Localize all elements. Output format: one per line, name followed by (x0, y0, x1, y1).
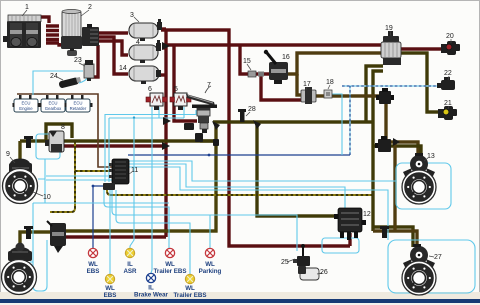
wire dashed olive: diagnostics to ECU (50, 141, 75, 212)
wire olive: long riser valve19 to rear park line (373, 71, 383, 231)
inline fitting 15 (248, 71, 256, 77)
wire tan: valve V down to chamber 13 (386, 104, 418, 157)
wire cyan: wheel sensor wires into ECU (46, 176, 112, 180)
svg-text:12: 12 (363, 211, 371, 218)
svg-text:13: 13 (427, 153, 435, 160)
wire red: tank14 out (158, 73, 166, 76)
svg-text:22: 22 (444, 70, 452, 77)
svg-text:19: 19 (385, 25, 393, 32)
svg-text:21: 21 (444, 100, 452, 107)
wire tan: valve16 branch down to valve17 (297, 74, 301, 95)
ECU Retarder box (65, 95, 93, 112)
rear left wheel chamber (8, 243, 32, 262)
svg-text:ECU: ECU (21, 101, 30, 106)
svg-text:11: 11 (131, 167, 138, 174)
svg-text:16: 16 (282, 54, 290, 61)
wire tan: rear park line to chamber 27 (373, 231, 417, 248)
warning lamp WL Parking red (205, 248, 214, 257)
pipe coil (46, 26, 62, 45)
node arrows on red main (162, 42, 170, 50)
wire tan: valve16 to valve19 (288, 53, 381, 74)
hand valve 16 (264, 50, 288, 84)
wire red: protection valve to tank 14 (97, 37, 128, 74)
svg-text:Gearbox: Gearbox (45, 106, 62, 111)
svg-text:18: 18 (326, 79, 334, 86)
svg-text:IL: IL (148, 285, 154, 292)
wire cyan: valve23 to ECU bus (33, 71, 83, 95)
front wheel chamber 9 (9, 159, 32, 175)
warning lamp WL Trailer EBS yellow (185, 274, 194, 283)
wire tan: valve17 to valve V (316, 94, 379, 97)
wire cyan: rear left wheel loop (30, 236, 47, 291)
svg-text:20: 20 (446, 33, 454, 40)
svg-text:WL: WL (205, 261, 215, 268)
wire dashed navy: trailer electric to coupling 22 (342, 85, 441, 87)
wire cyan: ECU right harness 2 (128, 164, 345, 208)
wire cyan: lamp feeds row2 (110, 190, 190, 275)
wire red: to rear left valve (64, 235, 166, 238)
svg-text:WL: WL (185, 285, 195, 292)
svg-text:Engine: Engine (19, 106, 33, 111)
node arrow pedal feed (163, 117, 171, 125)
wire red: main vertical (164, 29, 167, 237)
wire red: main supply bus (166, 43, 381, 46)
svg-text:10: 10 (43, 194, 51, 201)
trailer control valve 19 (381, 31, 401, 65)
wire tan: down to rear park line (393, 142, 396, 231)
wire cyan: ASR lamp long drop (130, 118, 134, 249)
wire red: protection valve to valve 23 (90, 45, 98, 77)
wire olive: branch to rear modulator (257, 122, 338, 216)
electric coupling 22 (437, 77, 455, 90)
wire cyan: brake wear lamp long drop (151, 107, 152, 273)
wheel 27 brake chamber (403, 244, 435, 273)
svg-text:25: 25 (281, 259, 289, 266)
four circuit protection valve (82, 24, 99, 46)
svg-text:1: 1 (25, 4, 29, 11)
wire CAN bus brown (17, 94, 112, 167)
wire cyan: ECU right harness 1 (128, 161, 396, 181)
ECU Gearbox box (40, 95, 67, 112)
svg-text:7: 7 (207, 82, 211, 89)
svg-text:8: 8 (61, 124, 65, 131)
wheel 13 (402, 170, 436, 204)
wire olive: riser to trailer valve 19 left (366, 66, 383, 122)
rear left wheel (2, 260, 37, 295)
wire olive: front axle delivery (20, 139, 216, 142)
wire red: protection valve to tank 3 (97, 31, 128, 34)
svg-text:5: 5 (174, 86, 178, 93)
wire cyan: lamp feeds row1 (104, 190, 297, 251)
svg-text:ECU: ECU (73, 101, 82, 106)
wire navy: ECU to lamp WL EBS (93, 186, 112, 249)
node at yellow/olive junction (213, 139, 219, 146)
svg-text:WL: WL (88, 261, 98, 268)
svg-text:IL: IL (127, 261, 133, 268)
rear axle modulator 12 (334, 208, 366, 240)
wire cyan: wheel 27 sensor box (388, 240, 475, 293)
svg-text:EBS: EBS (104, 292, 117, 299)
hand brake valve 25 (293, 244, 310, 266)
quick release valve rear upper (375, 136, 391, 152)
wire red: modulator supply riser (348, 233, 351, 246)
svg-text:WL: WL (165, 261, 175, 268)
pressure sensor 18 (324, 90, 332, 98)
wire navy: ECU to riser (128, 154, 350, 156)
valve 17 (301, 87, 316, 104)
svg-text:23: 23 (74, 57, 82, 64)
foot brake module 7 (184, 86, 217, 142)
wire red: bus down to rear modulator supply (161, 30, 350, 246)
T fitting rear park line (380, 226, 389, 229)
indicator lamp IL Brake Wear navy (146, 273, 155, 282)
svg-text:26: 26 (320, 269, 328, 276)
wire olive: foot brake delivery main (213, 120, 374, 123)
wire olive: service branch to chamber 27 (373, 227, 413, 247)
inline fitting on front delivery (24, 136, 33, 139)
svg-text:14: 14 (119, 65, 127, 72)
svg-text:17: 17 (303, 81, 311, 88)
wire red: valve 16 to valve 17 (261, 76, 301, 100)
wire cyan: switch 24 to valve 23 (79, 77, 88, 83)
wire cyan: front wheel loop (33, 159, 169, 236)
svg-text:EBS: EBS (87, 268, 100, 275)
inline fitting rear left (24, 226, 33, 229)
wire cyan: sensor 18 (332, 94, 342, 155)
svg-text:ASR: ASR (123, 268, 137, 275)
svg-text:9: 9 (6, 151, 10, 158)
svg-text:24: 24 (50, 73, 58, 80)
wire cyan: modulator connector box (322, 238, 359, 253)
solenoid valve 5 (170, 93, 191, 110)
EBS ECU 11 (103, 159, 129, 190)
wire red: to foot brake valve (174, 46, 197, 121)
svg-text:ECU: ECU (48, 101, 57, 106)
node arrow on olive line at yellow branch (212, 121, 220, 130)
wheel 13 brake chamber (403, 153, 435, 182)
wire red: tank4 out (162, 46, 166, 49)
wire cyan: ECU right harness 3 (128, 167, 388, 240)
svg-text:Trailer EBS: Trailer EBS (173, 292, 206, 299)
pressure switch 24 (58, 76, 81, 88)
svg-text:28: 28 (248, 106, 256, 113)
air tank 3 (129, 19, 162, 41)
coupling head 21 (438, 106, 457, 120)
air tank 14 (129, 66, 161, 84)
node arrow at olive branch x257 (253, 120, 261, 129)
compressor 1 (3, 15, 41, 48)
wire yellow: rear left valve to chamber (20, 232, 50, 249)
wire olive: loop over valve 8 (46, 124, 72, 140)
warning lamp WL EBS red (88, 248, 97, 257)
wire red: bus down to valve 15/16 (240, 46, 270, 74)
bracket 26 (298, 266, 319, 280)
svg-text:Trailer EBS: Trailer EBS (153, 268, 186, 275)
svg-text:4: 4 (136, 39, 140, 46)
wheel 27 (402, 261, 436, 295)
wire yellow: front chamber drop (18, 141, 21, 162)
front wheel 10 (3, 169, 38, 204)
warning lamp WL Trailer EBS red (165, 248, 174, 257)
air tank 4 (129, 40, 161, 63)
svg-text:Parking: Parking (199, 268, 222, 275)
svg-text:3: 3 (130, 12, 134, 19)
coupling head 20 (441, 41, 460, 55)
wire olive: lower olive duplicate foot line (200, 139, 216, 142)
test point 28 (238, 109, 246, 112)
indicator lamp IL ASR yellow (125, 248, 134, 257)
wire red: protection valve to tank 4 (97, 41, 128, 55)
wire olive: service branch to chamber 13 (373, 146, 421, 157)
rear left spring brake valve (47, 221, 66, 253)
wire dashed navy: riser (349, 86, 351, 155)
svg-text:15: 15 (243, 58, 251, 65)
warning lamp WL EBS yellow (105, 274, 114, 283)
svg-text:WL: WL (105, 285, 115, 292)
wire olive: valve19 to coupling 21 (400, 53, 441, 112)
solenoid valve 6 (146, 93, 167, 110)
node on navy wire (208, 154, 211, 157)
front axle valve 8 (45, 131, 64, 152)
wire supply red: compressor to coil (40, 17, 49, 23)
air dryer 2 (61, 10, 82, 57)
valve V near 19 (376, 88, 394, 104)
svg-text:Brake Wear: Brake Wear (134, 292, 169, 299)
svg-text:6: 6 (148, 86, 152, 93)
wire cyan: wheel 13 sensor box (396, 163, 451, 209)
wire cyan: solenoid wires (109, 107, 184, 182)
wire dashed olive: long horizontal (107, 187, 373, 195)
wire cyan: pedal sensor to ECU (105, 110, 196, 182)
valve 23 (84, 60, 94, 81)
wire red: valve 19 to coupling 20 (401, 47, 442, 50)
wire red: to front axle valve 8 (64, 144, 166, 147)
ECU Engine box (13, 95, 40, 112)
svg-text:Retarder: Retarder (70, 106, 87, 111)
wire cyan: front sensor box (36, 134, 60, 159)
wire red: tank3 out (161, 27, 166, 30)
svg-text:27: 27 (434, 254, 442, 261)
wire yellow: hand brake line down and to rear left valve (66, 124, 216, 231)
node arrow right of quick release valve (393, 138, 400, 146)
